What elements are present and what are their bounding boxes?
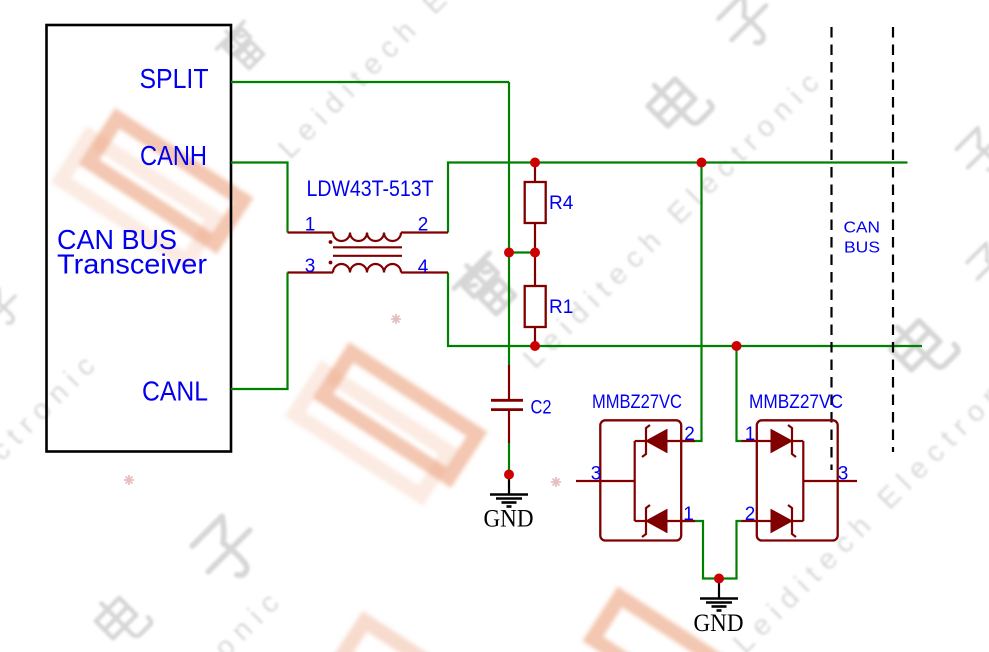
port label CANL [142,376,208,407]
svg-text:GND: GND [694,610,744,637]
svg-text:Leiditech Electronic: Leiditech Electronic [0,581,291,652]
svg-text:R1: R1 [549,297,573,318]
resistor R4 label [549,193,574,214]
svg-text:CANH: CANH [140,140,207,171]
junction CANH at D1 [697,158,707,168]
box title CAN BUS Transceiver line1 [57,224,177,255]
common-mode choke T1 pin4 lead [401,271,448,273]
T1 polarity dot bottom [329,261,333,265]
D1 pin number 3 [591,464,602,485]
T1 pin number 1 [305,215,316,236]
junction CANL at R1 [530,341,540,351]
T1 pin number 2 [418,215,429,236]
wire CANH from box to T1 pin1 [231,163,288,233]
ground symbol at TVS [700,579,738,611]
wire CANH to D1 pin2 [695,163,702,442]
capacitor C2 [491,365,523,443]
common-mode choke T1 pin1 lead [288,231,334,233]
T1 pin number 4 [418,257,429,278]
CAN BUS boundary dashed line left [830,27,832,470]
junction midpoint left [504,248,514,258]
svg-text:2: 2 [684,424,695,445]
resistor R1 [525,253,546,347]
svg-text:4: 4 [418,257,429,278]
wire R4-R1 midpoint link [509,251,535,253]
net label CAN BUS line1 [844,220,881,237]
wire SPLIT vertical to termination midpoint and C2 [508,82,510,365]
CAN BUS Transceiver box U1 [47,25,232,452]
resistor R4 [525,163,546,253]
D2 pin number 2 [745,504,756,525]
junction CANL at D2 [732,341,742,351]
wire SPLIT horizontal [231,81,509,83]
svg-text:MMBZ27VC: MMBZ27VC [592,392,682,413]
svg-text:3: 3 [591,464,602,485]
svg-text:Leiditech Electronic: Leiditech Electronic [0,344,107,652]
junction midpoint at R4/R1 [530,248,540,258]
TVS diode array D2 label MMBZ27VC [749,392,843,413]
ground label GND at TVS [694,610,744,637]
svg-text:BUS: BUS [844,240,880,257]
D1 pin number 1 [683,504,694,525]
svg-text:3: 3 [305,256,316,277]
box title CAN BUS Transceiver line2 [57,249,207,280]
ground label GND at C2 [484,506,534,533]
svg-text:MMBZ27VC: MMBZ27VC [749,392,843,413]
common-mode choke T1 top winding [333,233,401,242]
common-mode choke T1 bottom winding [333,264,401,273]
ground symbol at C2 [490,475,528,507]
svg-text:2: 2 [418,215,429,236]
svg-text:1: 1 [683,504,694,525]
svg-text:LDW43T-513T: LDW43T-513T [307,176,434,201]
D2 pin number 1 [745,424,756,445]
wire D1 pin1 and D2 pin2 to GND [695,521,742,579]
capacitor C2 label [531,398,552,419]
D2 pin number 3 [838,464,849,485]
svg-text:CANL: CANL [142,376,208,407]
svg-text:SPLIT: SPLIT [140,63,209,94]
TVS diode array D1 label MMBZ27VC [592,392,682,413]
svg-text:3: 3 [838,464,849,485]
D1 pin number 2 [684,424,695,445]
junction at TVS ground [714,574,724,584]
common-mode choke T1 pin2 lead [401,231,448,233]
CAN BUS boundary dashed line right [892,27,894,452]
resistor R1 label [549,297,573,318]
svg-text:Transceiver: Transceiver [57,249,207,280]
common-mode choke T1 pin3 lead [288,271,334,273]
TVS diode array D2 MMBZ27VC [742,420,858,540]
svg-text:1: 1 [305,215,316,236]
svg-text:2: 2 [745,504,756,525]
common-mode choke T1 core lines [333,247,402,256]
svg-text:R4: R4 [549,193,574,214]
wire T1 pin2 to CANH bus [448,163,908,233]
T1 polarity dot top [329,240,333,244]
port label SPLIT [140,63,209,94]
junction CANH at R4 [530,158,540,168]
svg-text:GND: GND [484,506,534,533]
net label CAN BUS line2 [844,240,880,257]
wire CANL to D2 pin1 [737,346,743,441]
TVS diode array D1 MMBZ27VC [576,420,695,540]
wire C2 bottom to GND [508,443,510,475]
wire T1 pin4 to CANL bus [448,273,922,347]
svg-text:1: 1 [745,424,756,445]
T1 value label LDW43T-513T [307,176,434,201]
svg-text:C2: C2 [531,398,552,419]
svg-text:CAN: CAN [844,220,881,237]
junction at C2 ground [504,470,514,480]
wire CANL from box to T1 pin3 [231,273,288,390]
port label CANH [140,140,207,171]
T1 pin number 3 [305,256,316,277]
